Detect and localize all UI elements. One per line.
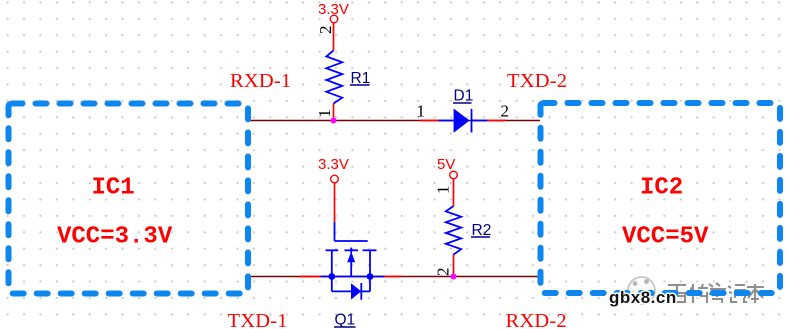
svg-text:5V: 5V — [437, 156, 455, 173]
svg-text:TXD-2: TXD-2 — [507, 70, 567, 92]
svg-text:D1: D1 — [454, 88, 474, 105]
svg-text:IC2: IC2 — [640, 175, 683, 202]
svg-text:gbx8.cn: gbx8.cn — [609, 288, 677, 307]
svg-text:VCC=5V: VCC=5V — [622, 224, 709, 251]
svg-text:RXD-1: RXD-1 — [230, 70, 291, 92]
svg-text:IC1: IC1 — [92, 175, 135, 202]
svg-text:2: 2 — [433, 268, 452, 277]
svg-text:VCC=3.3V: VCC=3.3V — [57, 224, 173, 251]
svg-text:RXD-2: RXD-2 — [506, 310, 567, 329]
svg-text:1: 1 — [315, 109, 334, 118]
svg-text:1: 1 — [434, 186, 453, 195]
svg-text:2: 2 — [316, 26, 335, 35]
svg-text:Q1: Q1 — [335, 312, 356, 329]
svg-text:3.3V: 3.3V — [318, 156, 349, 173]
svg-text:2: 2 — [501, 102, 510, 121]
svg-text:1: 1 — [417, 102, 426, 121]
svg-text:3.3V: 3.3V — [318, 1, 349, 18]
svg-text:TXD-1: TXD-1 — [228, 310, 288, 329]
